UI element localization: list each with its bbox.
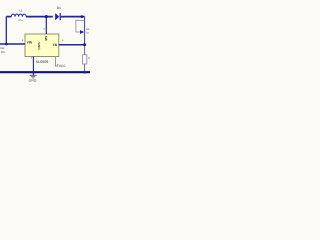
svg-text:47u: 47u (18, 19, 23, 22)
svg-text:VIN: VIN (27, 40, 33, 44)
svg-text:FB: FB (53, 43, 58, 47)
svg-text:1k: 1k (88, 57, 90, 60)
svg-text:GND: GND (37, 42, 41, 50)
svg-text:VCC: VCC (59, 64, 66, 68)
svg-text:L1: L1 (19, 8, 23, 12)
svg-text:D1: D1 (57, 6, 61, 10)
svg-text:XL6009: XL6009 (36, 60, 49, 64)
svg-text:C1: C1 (1, 50, 5, 54)
svg-text:GND: GND (29, 79, 37, 83)
svg-text:SW: SW (44, 36, 48, 41)
